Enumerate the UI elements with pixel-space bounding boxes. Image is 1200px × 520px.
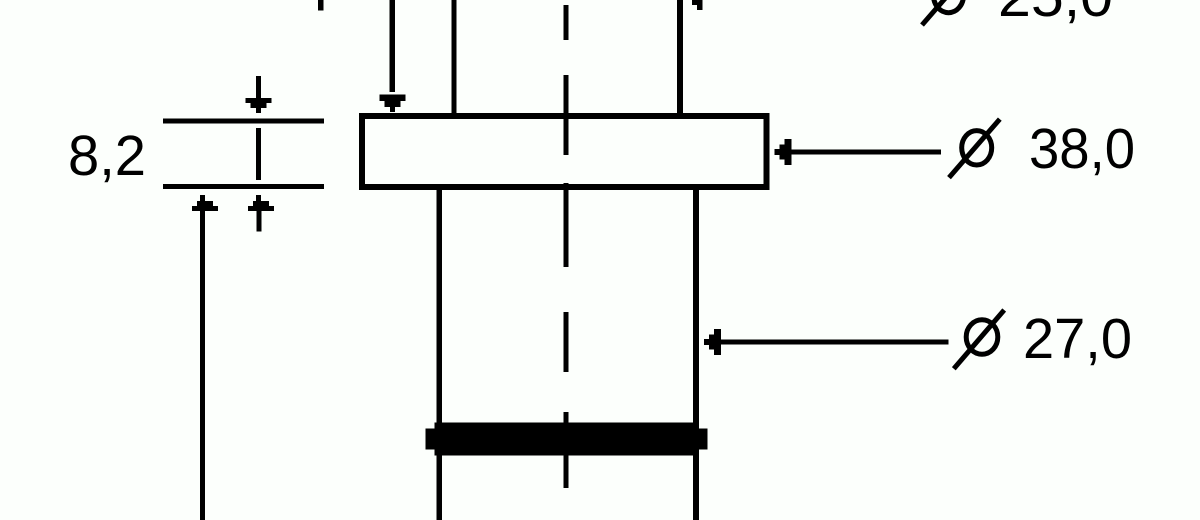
dim 8,2 upper arrow stem bbox=[256, 76, 261, 98]
centerline dash 5 bbox=[564, 412, 569, 488]
extension line stub top-left bbox=[318, 0, 323, 11]
svg-text:27,0: 27,0 bbox=[1023, 307, 1132, 371]
centerline dash 2 bbox=[564, 75, 569, 155]
upper cylinder right edge bbox=[677, 0, 683, 116]
overall length dimension arrowhead (up) bbox=[192, 195, 218, 211]
flange outline bbox=[362, 116, 767, 187]
o-ring band body bbox=[435, 423, 698, 456]
svg-text:25,0: 25,0 bbox=[998, 0, 1113, 29]
leader arrowhead Ø38 (left) bbox=[774, 139, 791, 165]
diameter symbol of Ø 38,0 bbox=[949, 119, 1000, 178]
svg-text:38,0: 38,0 bbox=[1029, 117, 1135, 181]
diameter symbol of Ø 25,0 (cut off at top) bbox=[922, 0, 973, 25]
lower cylinder right edge bbox=[693, 187, 699, 520]
centerline dash 1 bbox=[564, 5, 569, 40]
leader arrowhead Ø27 (left) bbox=[704, 329, 721, 355]
dim 8,2 lower arrow stem bbox=[257, 211, 262, 232]
centerline dash 4 bbox=[564, 312, 569, 372]
dim 8,2 lower arrowhead (up) bbox=[248, 195, 274, 211]
arrowhead remnant top-right bbox=[692, 0, 703, 10]
dim 8,2 lower extension line bbox=[163, 184, 324, 189]
svg-text:8,2: 8,2 bbox=[68, 124, 146, 188]
o-ring band ends bbox=[426, 429, 708, 450]
overall length dimension line bbox=[200, 211, 205, 520]
flange top arrowhead (down) bbox=[380, 95, 406, 113]
lower cylinder left edge bbox=[437, 187, 443, 520]
dim 8,2 upper arrowhead (down) bbox=[246, 98, 272, 113]
leader line Ø27 bbox=[721, 340, 949, 345]
dim 8,2 upper extension line bbox=[163, 119, 324, 124]
flange top arrow stem bbox=[390, 0, 396, 92]
leader line Ø38 bbox=[791, 150, 941, 155]
diameter symbol of Ø 27,0 bbox=[954, 310, 1004, 369]
upper cylinder left edge bbox=[452, 0, 457, 116]
dim 8,2 vertical dimension line bbox=[256, 128, 261, 180]
centerline dash 3 bbox=[564, 183, 569, 267]
